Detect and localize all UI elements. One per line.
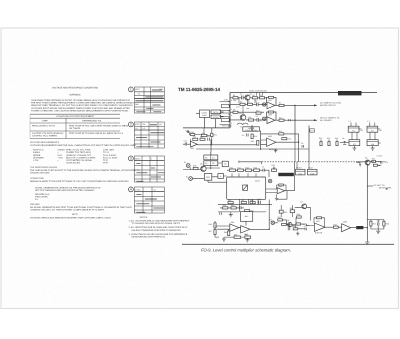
resistor R31: [245, 209, 254, 212]
resistor R10: [256, 109, 261, 114]
svg-text:FO-9. Level control multiplier: FO-9. Level control multiplier schematic…: [201, 247, 291, 252]
wire bottom rule: [182, 243, 394, 245]
resistor R13: [251, 134, 257, 139]
svg-text:AR5: AR5: [231, 221, 235, 224]
schematic level control multiplier: [183, 89, 393, 244]
inductor L1 arc: [237, 123, 248, 128]
wire AR4 output long: [183, 139, 257, 145]
svg-text:AR1: AR1: [268, 99, 272, 102]
svg-text:CHRISTMAS TREE PATTERNS IN FRO: CHRISTMAS TREE PATTERNS IN FRONT OF PANE…: [31, 99, 131, 102]
svg-text:AR8: AR8: [343, 221, 347, 224]
junction dot AR4: [210, 144, 211, 145]
svg-text:E1: E1: [184, 161, 186, 164]
svg-text:R12: R12: [279, 116, 282, 119]
svg-text:Q6: Q6: [287, 219, 289, 222]
svg-text:SIGNAL GENERATORS LEVELED ON T: SIGNAL GENERATORS LEVELED ON THE ASSIGN …: [35, 187, 101, 190]
svg-text:BUFFER: BUFFER: [315, 232, 323, 235]
left instruction text block: [31, 87, 134, 113]
svg-text:R48: R48: [386, 222, 389, 225]
op-amp AR6: [241, 226, 250, 236]
svg-text:Q7: Q7: [301, 201, 303, 204]
svg-text:2. ALL RESISTORS ARE IN OHMS: 2. ALL RESISTORS ARE IN OHMS AND CAPACIT…: [129, 226, 189, 229]
wire bus S1 drop: [295, 140, 309, 169]
svg-text:MEAS: MEAS: [135, 157, 141, 160]
resistor R24: [372, 158, 376, 163]
svg-text:R47: R47: [373, 222, 376, 225]
resistor R44: [296, 223, 305, 226]
signal block LEVEL: [200, 110, 210, 118]
svg-text:R15: R15: [288, 138, 291, 141]
waveform table 4: [129, 187, 165, 213]
capacitor C1: [240, 93, 243, 100]
svg-text:R21: R21: [319, 137, 322, 140]
svg-text:R10: R10: [256, 109, 259, 112]
wire AR5 net: [215, 221, 269, 237]
wire long row A below box: [218, 203, 272, 205]
svg-text:TEST POINT AT TB2, USE A TEST: TEST POINT AT TB2, USE A TEST PROBE. MAK…: [69, 125, 129, 128]
svg-text:R34: R34: [251, 140, 254, 143]
op-amp AR8: [342, 221, 351, 232]
wire chain mid links: [292, 226, 309, 229]
svg-text:POWER TOS TEST ASSY: POWER TOS TEST ASSY: [66, 151, 92, 154]
value label 2W: [259, 120, 262, 123]
resistor R52: [292, 225, 298, 230]
svg-text:AR9: AR9: [279, 185, 283, 188]
resistor R49: [190, 131, 194, 136]
svg-text:SUPPLY, A: SUPPLY, A: [33, 149, 44, 152]
wire E2 to OSC: [193, 176, 227, 182]
svg-text:VOLTAGE REQUIREMENTS ARE THE D: VOLTAGE REQUIREMENTS ARE THE DUAL CHARAC…: [30, 144, 136, 147]
svg-text:R13: R13: [254, 135, 257, 138]
box AMPL: [218, 174, 224, 179]
svg-text:FULL CL ASSY: FULL CL ASSY: [103, 156, 118, 159]
svg-text:R24: R24: [372, 158, 375, 161]
relay labels: [349, 120, 383, 132]
svg-text:STEP: STEP: [42, 120, 48, 123]
svg-text:TP4: TP4: [385, 161, 388, 164]
svg-text:R51: R51: [214, 134, 217, 137]
box OSC: [204, 174, 211, 181]
wire AR1 out: [275, 104, 314, 106]
svg-text:COMMON CIRCUITS, SO THAT NOTCH: COMMON CIRCUITS, SO THAT NOTCHED CLAMPS …: [30, 209, 105, 212]
resistor R1: [233, 94, 238, 102]
svg-text:TOL: TOL: [142, 123, 145, 126]
resistor R6 feedback: [267, 96, 277, 105]
svg-text:C7: C7: [262, 166, 264, 169]
wire grid link: [211, 152, 222, 169]
transistor Q7: [301, 201, 307, 209]
waveform table 2: [129, 122, 165, 148]
resistor R35: [193, 165, 198, 170]
svg-text:R18: R18: [246, 166, 249, 169]
svg-text:FRONT: FRONT: [296, 167, 302, 170]
resistor R46: [333, 223, 338, 228]
resistor R39 on rail: [234, 233, 241, 238]
svg-text:R14: R14: [279, 130, 282, 133]
grid of component boxes VALUES: [204, 155, 218, 160]
capacitor C7: [262, 166, 265, 172]
capacitor C3: [256, 115, 259, 122]
svg-text:R4: R4: [240, 101, 242, 104]
svg-text:OSC: OSC: [206, 176, 211, 179]
wire dashed control line: [262, 161, 386, 163]
svg-text:C4: C4: [212, 156, 214, 159]
svg-text:3: 3: [130, 157, 132, 161]
svg-text:UNLESS OTHERWISE SPECIFIED TOL: UNLESS OTHERWISE SPECIFIED TOLERANCES.: [132, 229, 182, 232]
svg-text:CTRL UNIT: CTRL UNIT: [103, 149, 115, 152]
svg-text:VOLTAGES EXIST WITHIN THE EQUI: VOLTAGES EXIST WITHIN THE EQUIPMENT WHEN…: [31, 107, 130, 110]
ground rail right: [246, 238, 250, 242]
table notes: [129, 216, 191, 239]
capacitor C13: [184, 140, 187, 146]
connector circle E2: [186, 176, 193, 181]
wire Q5 links: [356, 162, 380, 167]
svg-text:ATTEN: ATTEN: [213, 116, 219, 119]
svg-text:THE TEST POINTS WHEN THE EQUIP: THE TEST POINTS WHEN THE EQUIPMENT COVER…: [31, 102, 134, 105]
svg-text:VOLTAGE MEASUREMENTS: VOLTAGE MEASUREMENTS: [30, 141, 60, 144]
wire row A2: [230, 103, 267, 105]
svg-text:R30: R30: [231, 204, 234, 207]
voltage measurements list: [30, 141, 136, 165]
wire input row A: [230, 97, 267, 99]
wire AR3 net: [261, 134, 299, 145]
capacitor C12: [207, 135, 210, 141]
connector circle E5: [263, 117, 266, 120]
svg-text:T1: T1: [240, 125, 242, 128]
ground K3: [352, 146, 356, 151]
svg-text:LEVEL SET: LEVEL SET: [280, 174, 292, 177]
capacitor C2: [255, 100, 258, 107]
svg-text:SPEC 2½-DC VOL. PWR: SPEC 2½-DC VOL. PWR: [66, 149, 91, 152]
wire row B: [230, 112, 267, 120]
resistor R2: [253, 94, 258, 99]
svg-text:LEVEL CONTROL BD: LEVEL CONTROL BD: [249, 89, 267, 92]
signal block DETECTOR: [211, 110, 221, 114]
resistor R25: [373, 164, 381, 167]
resistor R28: [250, 199, 255, 204]
wire multiplier pins bottom: [240, 199, 259, 211]
junction dot AR3 out: [298, 134, 299, 162]
bottom rail: [215, 236, 248, 238]
resistor R55: [290, 207, 295, 213]
wire AR9 io: [266, 162, 295, 199]
node DC OUTPUT: [367, 184, 392, 190]
svg-text:ADJ: ADJ: [358, 227, 362, 230]
svg-text:AR3: AR3: [268, 135, 272, 138]
resistor R51: [211, 133, 217, 136]
resistor R17: [238, 166, 244, 171]
wire blocks to J1: [196, 112, 224, 128]
junction to right bus: [363, 227, 368, 228]
connector circle E1: [184, 161, 190, 167]
svg-text:100 TEST PTS WITH LEVELING: 100 TEST PTS WITH LEVELING: [32, 132, 64, 135]
svg-text:J1 P1: J1 P1: [224, 98, 229, 101]
svg-text:8: 8: [231, 99, 232, 102]
svg-text:4: 4: [231, 114, 232, 117]
svg-text:CONDITIONS: CONDITIONS: [30, 177, 44, 180]
ground right cluster: [376, 229, 380, 233]
wire E1 row: [183, 167, 220, 169]
svg-text:CHASSIS GROUND: CHASSIS GROUND: [30, 172, 50, 175]
ground below Q cluster: [250, 125, 254, 130]
resistor R11 feedback: [267, 111, 277, 120]
wire board bottom edge left: [183, 125, 232, 128]
svg-text:DETERMINING TOL: DETERMINING TOL: [82, 120, 102, 123]
wire chain links: [275, 218, 315, 227]
connector circle E6: [268, 179, 272, 183]
svg-text:E3: E3: [270, 218, 272, 221]
label box TP3: [222, 161, 228, 167]
svg-text:+15V: +15V: [57, 154, 63, 157]
wire control line solid part: [239, 161, 262, 165]
wire mid vertical x260: [260, 131, 262, 151]
svg-text:DESIGNATIONS WITH PREFIX A2.: DESIGNATIONS WITH PREFIX A2.: [132, 236, 167, 239]
svg-text:R17: R17: [238, 166, 241, 169]
wire row2: [220, 207, 244, 209]
svg-text:C9: C9: [212, 162, 214, 165]
capacitor C9: [381, 161, 383, 164]
svg-text:R40: R40: [245, 233, 248, 236]
resistor R53 feedback AR9: [277, 184, 287, 191]
wire row links vertical: [239, 98, 255, 115]
capacitor C17: [304, 225, 307, 230]
wire long bus y149: [196, 145, 309, 155]
svg-text:SET FOR THRESHOLDED REGROUPED: SET FOR THRESHOLDED REGROUPED AFTER CLEA…: [35, 189, 95, 192]
svg-text:NOTES: NOTES: [140, 216, 148, 219]
op-amp AR9: [277, 185, 285, 194]
svg-text:R43: R43: [297, 213, 300, 216]
op-amp AR7: [314, 220, 325, 235]
svg-text:VOLTAGE CHECKS AND READINGS MO: VOLTAGE CHECKS AND READINGS MODIFIED THA…: [30, 217, 111, 220]
wire cluster above AR4: [195, 128, 212, 145]
capacitor C11: [239, 206, 241, 209]
resistor R3: [260, 94, 265, 99]
svg-text:R1: R1: [205, 156, 207, 159]
resistor R34: [251, 140, 259, 145]
svg-text:R8: R8: [233, 109, 235, 112]
svg-text:R46: R46: [333, 223, 336, 226]
capacitor C14: [287, 224, 290, 230]
node arrow into R49: [186, 130, 189, 133]
svg-text:R27: R27: [241, 199, 244, 202]
transistor Q1: [245, 93, 252, 101]
svg-text:B'ING LEVEL: B'ING LEVEL: [35, 196, 49, 199]
svg-text:TEST POINT AT TUR AND USE IN A: TEST POINT AT TUR AND USE IN ALL MEAS TA…: [69, 132, 124, 135]
svg-text:2 7: 2 7: [349, 120, 351, 123]
node +15V: [385, 161, 388, 164]
capacitor C6: [301, 142, 304, 148]
wire long row B below box: [218, 211, 266, 213]
svg-text:3. CAPACITANCE VALUES SHOWN A: 3. CAPACITANCE VALUES SHOWN ARE FOR REFE…: [129, 233, 188, 236]
svg-text:R38: R38: [224, 231, 227, 234]
resistor R50: [201, 132, 207, 137]
svg-text:CONTROL PULL TIMERS: CONTROL PULL TIMERS: [32, 135, 57, 138]
ground K4: [371, 146, 375, 151]
conditions table: [30, 114, 129, 138]
svg-text:(+)15V: (+)15V: [377, 154, 383, 157]
ground AR3 monitor: [274, 149, 277, 153]
svg-text:R55: R55: [290, 207, 293, 210]
ground left low: [229, 212, 233, 217]
resistor R23: [335, 137, 338, 146]
resistance notes text: [30, 166, 140, 220]
capacitor C15: [377, 220, 380, 226]
svg-text:R29: R29: [223, 204, 226, 207]
svg-text:SENSE: SENSE: [33, 154, 41, 157]
svg-text:C3: C3: [256, 115, 258, 118]
svg-text:R23: R23: [335, 137, 338, 140]
board corner label: [249, 89, 267, 95]
svg-text:AR2: AR2: [268, 114, 272, 117]
resistor R14: [279, 130, 284, 135]
svg-text:R7: R7: [205, 162, 207, 165]
grid row 2: [204, 161, 218, 166]
svg-text:C2: C2: [255, 100, 257, 103]
svg-text:R54: R54: [284, 211, 287, 214]
waveform table 3: [129, 156, 165, 182]
svg-text:R19: R19: [254, 166, 257, 169]
svg-text:ALC BOARD: ALC BOARD: [320, 119, 332, 122]
resistor R47: [370, 221, 376, 226]
resistor R22: [327, 137, 330, 146]
signal block ATTEN: [211, 115, 221, 119]
svg-text:R3: R3: [260, 94, 262, 97]
svg-text:R37: R37: [209, 230, 212, 233]
svg-text:C6: C6: [301, 142, 303, 145]
ground right bus: [365, 240, 369, 244]
resistor R48: [383, 221, 389, 226]
ground rail left: [222, 237, 226, 241]
resistor R19: [254, 166, 260, 171]
svg-text:TP E: TP E: [103, 159, 108, 162]
svg-text:6: 6: [231, 108, 232, 111]
svg-text:CONDITIONS FOR TEST EQUIPMENT: CONDITIONS FOR TEST EQUIPMENT: [56, 115, 95, 118]
svg-text:MULT OF L CONTROLS TEST: MULT OF L CONTROLS TEST: [66, 156, 96, 159]
resistor R30: [231, 204, 236, 209]
label box SIGNAL CONDITIONER: [243, 127, 260, 132]
wire top bus: [230, 92, 377, 94]
svg-text:A2A5: A2A5: [255, 179, 260, 182]
capacitor C10: [258, 198, 261, 204]
svg-text:LEVELING CONN IN CKT: LEVELING CONN IN CKT: [66, 154, 92, 157]
wire box output down: [268, 200, 270, 230]
wire AR7 to AR8: [325, 226, 334, 228]
svg-text:GROUND: GROUND: [30, 203, 40, 206]
svg-text:CONT ACCES: CONT ACCES: [66, 162, 80, 165]
svg-text:+28VDC: +28VDC: [57, 149, 66, 152]
relay K1: [348, 123, 361, 133]
svg-text:THE CHECKLINE POINT ADJUST TO: THE CHECKLINE POINT ADJUST TO THE SPACE …: [30, 169, 140, 172]
title TM 11-6625-2698-14: [178, 87, 221, 92]
potentiometer R20: [272, 164, 277, 171]
ground chain: [296, 232, 299, 236]
svg-text:R16: R16: [230, 166, 233, 169]
assembly label PART OF A2A1: [338, 91, 362, 95]
svg-text:R31: R31: [250, 209, 253, 212]
svg-text:CONDITIONER: CONDITIONER: [245, 129, 258, 132]
op-amp AR4: [191, 141, 198, 150]
svg-text:READINGS MADE TOTOLUATE TPT BA: READINGS MADE TOTOLUATE TPT BASE OF OSC …: [30, 180, 129, 183]
svg-text:R1: R1: [233, 94, 235, 97]
wire AR8 out: [338, 226, 356, 229]
svg-text:FULL R ASSY: FULL R ASSY: [103, 154, 117, 157]
junction dot AR2 bus: [294, 120, 295, 121]
component row above multiplier: resistor R16: [230, 166, 236, 171]
svg-text:ON TRACE: ON TRACE: [69, 127, 81, 130]
svg-text:NEAR EXPOSED TERMINALS. DO NOT: NEAR EXPOSED TERMINALS. DO NOT TOUCH EXP…: [31, 104, 133, 107]
svg-text:THE RESISTANCE READS: THE RESISTANCE READS: [30, 166, 57, 169]
op-amp AR1: [267, 99, 275, 109]
connector circle E3: [270, 218, 275, 224]
svg-text:R49: R49: [190, 131, 193, 134]
transistor Q6: [287, 219, 292, 227]
relay K2: [367, 123, 380, 133]
wire right bus down: [366, 165, 368, 240]
svg-text:R7: R7: [279, 102, 281, 105]
transistor Q2: [239, 112, 246, 121]
resistor R37: [209, 230, 217, 235]
svg-text:AR4: AR4: [191, 147, 195, 150]
resistor R32: [193, 136, 198, 141]
wire row above multiplier: [227, 170, 269, 177]
relay K4: [367, 132, 381, 146]
svg-text:A BIAS: A BIAS: [33, 151, 40, 154]
resistor R26: [228, 199, 233, 204]
svg-text:PART OF A2A1: PART OF A2A1: [341, 92, 358, 95]
svg-text:REGULATORS 2 TO 5V: REGULATORS 2 TO 5V: [32, 125, 56, 128]
svg-text:R5: R5: [248, 101, 250, 104]
wire multiplier pins top: [232, 173, 256, 176]
resistor R21: [319, 137, 322, 146]
label box dark GAIN ADJ: [278, 173, 294, 177]
switch S1B: [308, 167, 318, 176]
svg-text:TM 11-6625-2698-14: TM 11-6625-2698-14: [178, 87, 221, 92]
svg-text:2.5: 2.5: [142, 127, 145, 130]
svg-text:RELATED N+5: RELATED N+5: [35, 193, 50, 196]
svg-text:R20: R20: [272, 164, 275, 167]
svg-text:2: 2: [231, 122, 232, 125]
capacitor C4: [289, 119, 291, 121]
svg-text:AN SIGNAL GENERATOR AND TEST T: AN SIGNAL GENERATOR AND TEST TO AN ADDIT…: [30, 206, 132, 209]
svg-text:1. ALL VOLTAGES ARE DC AND ME: 1. ALL VOLTAGES ARE DC AND MEASURED WITH…: [129, 219, 191, 222]
resistor R33: [200, 136, 205, 141]
svg-text:POWER IS REMOVED. USE CAUTION: POWER IS REMOVED. USE CAUTION WHEN MAKIN…: [31, 109, 129, 112]
svg-text:I, PIN: I, PIN: [33, 159, 39, 162]
svg-text:4: 4: [130, 188, 132, 192]
svg-text:NOTE: NOTE: [72, 213, 79, 216]
svg-text:C8: C8: [342, 137, 344, 140]
resistor R5: [248, 101, 253, 106]
svg-text:R28: R28: [250, 199, 253, 202]
vertical bus x309: [309, 126, 314, 162]
junction dot AR6 out: [269, 229, 270, 230]
transistor Q5: [365, 154, 383, 165]
resistor R36: [209, 223, 217, 228]
ground AR9: [275, 195, 278, 201]
svg-text:Q3: Q3: [200, 163, 202, 166]
resistor R12 inline: [279, 116, 284, 121]
node AC SAMPLE out: [314, 102, 342, 107]
resistor R42: [282, 223, 290, 226]
svg-text:REAR: REAR: [308, 167, 313, 170]
value label 1%: [236, 106, 240, 109]
connector circle E4: [263, 103, 266, 106]
resistor R8: [233, 109, 238, 114]
svg-text:2: 2: [130, 123, 132, 127]
row 2 below multiplier: resistor R29: [223, 204, 228, 209]
resistor R41: [278, 216, 283, 221]
svg-text:C1: C1: [240, 93, 242, 96]
